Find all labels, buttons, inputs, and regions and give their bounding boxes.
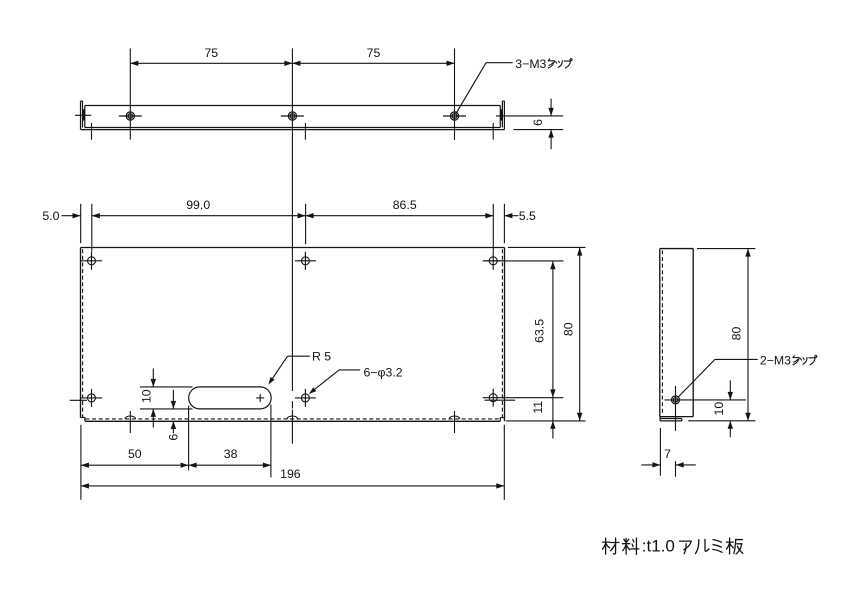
dimension 7 [641,428,696,476]
tapped hole M3 middle (top view) [281,112,304,120]
label 6-phi3.2 with leader [309,365,403,394]
extension line side top [697,248,755,250]
dimension 196 [81,467,504,488]
dimension 10 (side view) [712,380,733,437]
hole 3.2 bottom-mid [295,389,316,407]
left end flange tapped-hole mark [75,109,91,120]
svg-text:86.5: 86.5 [393,198,417,212]
extension lines below plate [81,405,504,500]
side view tapped hole 2-M3 [665,386,746,477]
side view bottom flange [660,417,682,421]
dimension 99.0 [92,198,306,218]
svg-text:80: 80 [729,327,743,341]
dimension 5.0 [42,209,80,223]
hole 3.2 top-left [81,252,102,270]
svg-text:38: 38 [224,447,238,461]
slot dimension extension lines [140,387,193,409]
svg-text:6: 6 [531,119,545,126]
dimension 6 (flange height) [496,99,563,150]
extension line first column [91,204,93,252]
side view outline [660,249,693,417]
slot (obround, R5) [189,387,272,409]
svg-text:5.0: 5.0 [42,209,59,223]
top view outline (bottom flange bar, bent ends) [81,101,505,130]
extension line middle column [305,204,307,245]
label 2-M3 tap with leader [678,354,817,398]
svg-text:2−M3: 2−M3 [760,354,791,368]
face-hole position ticks on bar [92,123,494,140]
svg-text:10: 10 [712,402,726,416]
side-flange tap centerline mark right [485,399,516,401]
svg-text:196: 196 [280,467,301,481]
right end flange tapped-hole mark [500,109,502,120]
bend line bottom (dashed) [86,418,501,420]
svg-text:6−φ3.2: 6−φ3.2 [364,365,403,379]
svg-text::t1.0: :t1.0 [642,537,675,556]
dimension 75 (right) [292,46,454,66]
hole 3.2 bottom-right [483,389,564,407]
centerline through right hole [454,48,456,139]
extension line right edge (5.5) [503,204,505,243]
svg-text:5.5: 5.5 [519,209,536,223]
dimension 50 [81,447,189,468]
svg-text:75: 75 [367,46,381,60]
svg-text:7: 7 [664,447,671,461]
dimension 10 (slot width) [140,368,156,427]
svg-text:10: 10 [140,389,154,403]
long chain centerline through middle hole [291,48,293,443]
svg-text:11: 11 [531,401,545,414]
bend line left (dashed) [82,249,84,417]
extension line left edge (5.0) [80,204,82,243]
dimension 6 (slot to edge) [166,390,180,441]
dimension 75 (left) [130,46,292,66]
svg-text:80: 80 [562,322,576,336]
tapped hole M3 right (top view) [443,112,466,120]
label 3-M3 tap with leader [456,57,572,114]
svg-text:75: 75 [204,46,218,60]
centerline through left hole [129,48,131,139]
dimension 38 [189,447,271,468]
hole 3.2 top-mid [295,252,316,270]
extension line right column [492,204,494,252]
dimension 5.5 [504,209,536,223]
bend-flange tap mark right (tick and bump) [449,411,459,433]
hole 3.2 bottom-left [81,389,102,407]
hole 3.2 top-right [483,252,564,270]
svg-text:99.0: 99.0 [186,198,210,212]
extension top edge right [508,246,586,248]
main plate outline [81,248,505,422]
tapped hole M3 left (top view) [119,112,142,120]
svg-text:3−M3: 3−M3 [515,57,546,71]
dimension 80 (side view) [729,249,750,421]
dimension 86.5 [306,198,494,218]
material note: zairyou t1.0 aluminium plate [603,537,743,556]
bend line right (dashed) [501,249,503,417]
label R 5 with leader [268,349,331,384]
dimension 80 (main view) [562,248,583,421]
extension bottom edge right [506,420,586,422]
side-flange tap centerline mark left [70,399,87,401]
dimension 63.5 and 11 [531,261,556,438]
side view bend line (dashed) [661,250,663,415]
bend-flange tap mark middle (bump) [287,416,297,419]
extension line side bottom [688,420,755,422]
svg-text:63.5: 63.5 [533,319,547,343]
bend-flange tap mark left (tick and bump) [125,411,135,433]
svg-text:50: 50 [128,447,142,461]
svg-text:6: 6 [166,434,180,441]
svg-text:R 5: R 5 [312,349,331,363]
